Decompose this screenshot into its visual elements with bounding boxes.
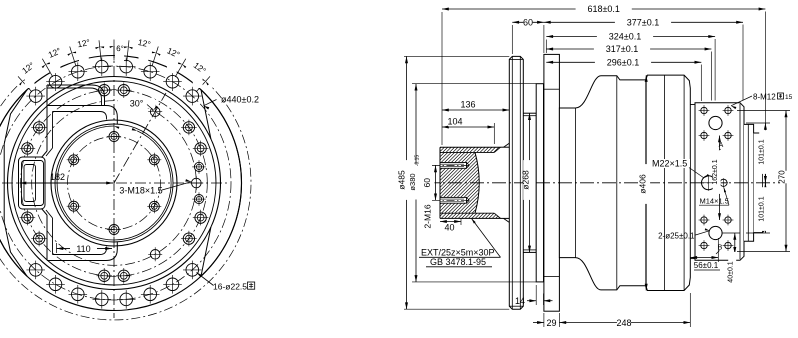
hole D22.5 at 240deg bbox=[46, 275, 65, 294]
hole D22.5 at 120deg bbox=[46, 72, 65, 91]
dim 296 bbox=[546, 57, 701, 67]
hole D22.5 at 132deg bbox=[26, 87, 45, 106]
port M14x1.5 bbox=[719, 178, 728, 187]
extension lines top dims bbox=[442, 12, 765, 146]
hole D22.5 at 108deg bbox=[69, 62, 88, 81]
dim 104 bbox=[442, 117, 494, 145]
dim 182 bbox=[20, 172, 114, 185]
hole D22.5 at 288deg bbox=[141, 285, 160, 304]
svg-text:M22×1.5: M22×1.5 bbox=[652, 159, 687, 169]
svg-text:324±0.1: 324±0.1 bbox=[609, 32, 641, 42]
svg-text:110: 110 bbox=[76, 244, 90, 254]
bolt circle mid bbox=[21, 90, 208, 277]
dim D485 bbox=[397, 56, 510, 309]
svg-text:2-ø25±0.1: 2-ø25±0.1 bbox=[658, 232, 695, 241]
stud hole at 216.6deg bbox=[31, 231, 47, 247]
dim 101 upper bbox=[746, 123, 770, 233]
stud hole at 276deg bbox=[116, 268, 132, 284]
svg-text:101±0.1: 101±0.1 bbox=[759, 196, 766, 221]
end cap bbox=[754, 133, 766, 233]
label D440 bbox=[204, 95, 259, 110]
dim 377 bbox=[544, 17, 743, 27]
port B D25 bbox=[709, 226, 722, 239]
label M22x1.5 bbox=[651, 159, 709, 179]
hole D22.5 at 228deg bbox=[26, 261, 45, 280]
housing ring bbox=[544, 54, 560, 311]
svg-text:162±0.1: 162±0.1 bbox=[712, 159, 719, 184]
label 3-M18x1.5 bbox=[119, 179, 191, 195]
stud hole at 158.2deg bbox=[20, 141, 36, 157]
svg-text:ø380: ø380 bbox=[408, 173, 417, 190]
side view centerline bbox=[426, 182, 780, 184]
inner hole at 90deg bbox=[107, 130, 121, 144]
svg-text:8-M12: 8-M12 bbox=[753, 93, 776, 102]
12deg labels bbox=[20, 28, 208, 88]
splined shaft outline bbox=[440, 143, 509, 222]
flange left flat profile bbox=[4, 90, 27, 276]
label 2-M16 bbox=[423, 204, 433, 228]
mounting bracket lug bbox=[19, 85, 118, 261]
bolt circle D440 bbox=[0, 66, 231, 300]
svg-text:40±0.1: 40±0.1 bbox=[728, 261, 735, 282]
stud hole at 21.8deg bbox=[193, 141, 209, 157]
dim 14 bbox=[515, 285, 553, 306]
flange chamfer right bbox=[201, 227, 211, 276]
label A bbox=[717, 142, 724, 154]
6deg label bbox=[115, 37, 124, 66]
hole D22.5 at 84deg bbox=[117, 57, 136, 76]
boss circle inner bbox=[55, 124, 173, 242]
hole D22.5 at 72deg bbox=[141, 62, 160, 81]
radial centerline 60deg bbox=[114, 93, 166, 183]
angular dim arc bbox=[0, 46, 251, 320]
label B bbox=[716, 245, 723, 255]
8 M12 bolt holes bbox=[699, 105, 734, 251]
svg-text:ø485: ø485 bbox=[397, 170, 407, 190]
dim 317 bbox=[546, 44, 711, 54]
svg-text:ø268: ø268 bbox=[521, 170, 531, 190]
end ring bbox=[744, 124, 754, 241]
dim 60 studs bbox=[422, 165, 437, 200]
body circle D406 bbox=[8, 77, 221, 290]
label 2-D25 bbox=[658, 228, 710, 240]
stud hole at 36.6deg bbox=[181, 120, 197, 136]
inner hole at 330deg bbox=[147, 199, 161, 213]
hole D22.5 at 276deg bbox=[117, 290, 136, 309]
hole D22.5 at 264deg bbox=[93, 290, 112, 309]
spigot D268 bbox=[523, 113, 536, 252]
spline section hatching bbox=[357, 145, 579, 221]
svg-text:296±0.1: 296±0.1 bbox=[607, 57, 639, 67]
boss circle outer bbox=[51, 120, 177, 246]
svg-text:EXT/25z×5m×30P: EXT/25z×5m×30P bbox=[421, 248, 495, 258]
angular extension lines bbox=[18, 40, 210, 93]
stud hole at 84deg bbox=[116, 82, 132, 98]
stud hole at 143.4deg bbox=[31, 120, 47, 136]
stud hole at -36.6deg bbox=[181, 231, 197, 247]
label spline spec bbox=[419, 219, 501, 268]
svg-text:270: 270 bbox=[778, 170, 787, 184]
svg-text:136: 136 bbox=[460, 100, 475, 110]
svg-text:40: 40 bbox=[444, 223, 454, 233]
bolt circle inner bbox=[68, 137, 161, 230]
bolt circle M18 bbox=[32, 101, 197, 266]
hole D22.5 at 96deg bbox=[93, 57, 112, 76]
dim 60 top bbox=[512, 17, 544, 27]
dim 162 bbox=[712, 136, 721, 221]
stud hole at 264deg bbox=[96, 268, 112, 284]
dim D406 bbox=[638, 75, 651, 290]
svg-text:6°: 6° bbox=[116, 44, 124, 53]
inner hole at 150deg bbox=[67, 153, 81, 167]
front view: horizontal centerline bbox=[2, 182, 228, 184]
dim D380 bbox=[408, 84, 536, 282]
svg-text:ø406: ø406 bbox=[638, 174, 648, 194]
hole M18 at 0deg bbox=[189, 176, 203, 190]
hole D22.5 at 312deg bbox=[183, 261, 202, 280]
svg-text:16-ø22.5: 16-ø22.5 bbox=[213, 282, 247, 292]
ring D380 bbox=[536, 84, 543, 282]
svg-text:104: 104 bbox=[447, 117, 462, 127]
dim 40 block bbox=[722, 233, 746, 292]
stud hole at -21.8deg bbox=[193, 210, 209, 226]
stud hole at 201.8deg bbox=[20, 210, 36, 226]
label M14x1.5 bbox=[699, 188, 729, 206]
svg-text:-0.15: -0.15 bbox=[415, 155, 421, 167]
dim 40 bbox=[440, 218, 461, 233]
dim 136 bbox=[442, 100, 509, 115]
dim 618 bbox=[442, 4, 765, 14]
svg-text:14: 14 bbox=[515, 296, 525, 306]
svg-text:30°: 30° bbox=[130, 99, 144, 109]
inner hole at 30deg bbox=[147, 153, 161, 167]
flange outer arc bottom bbox=[0, 55, 242, 276]
hole D22.5 at 300deg bbox=[163, 275, 182, 294]
svg-text:60: 60 bbox=[523, 17, 533, 27]
inner hole at 210deg bbox=[67, 199, 81, 213]
svg-text:3-M18×1.5: 3-M18×1.5 bbox=[119, 186, 162, 196]
svg-text:29: 29 bbox=[546, 318, 556, 328]
svg-text:2-M16: 2-M16 bbox=[423, 204, 433, 228]
dim 29 bbox=[533, 313, 559, 328]
body circle D380 bbox=[12, 81, 216, 285]
svg-text:M14×1.5: M14×1.5 bbox=[700, 197, 729, 206]
svg-text:101±0.1: 101±0.1 bbox=[759, 139, 766, 164]
svg-text:618±0.1: 618±0.1 bbox=[587, 4, 619, 14]
label 8-M12 bbox=[731, 93, 793, 110]
port A D25 bbox=[709, 116, 722, 129]
hole M18 at 60deg bbox=[148, 105, 162, 119]
svg-text:56±0.1: 56±0.1 bbox=[694, 261, 719, 270]
svg-text:377±0.1: 377±0.1 bbox=[627, 17, 659, 27]
stud hole at 96deg bbox=[96, 82, 112, 98]
dim 30deg bbox=[57, 99, 171, 240]
svg-text:GB 3478.1-95: GB 3478.1-95 bbox=[430, 257, 486, 267]
svg-text:248: 248 bbox=[616, 318, 631, 328]
svg-text:ø440±0.2: ø440±0.2 bbox=[221, 95, 259, 105]
inner hole at 270deg bbox=[107, 223, 121, 237]
small hole at -10.7deg bbox=[192, 192, 206, 206]
dim 270 bbox=[737, 111, 790, 252]
svg-text:60: 60 bbox=[422, 178, 432, 188]
dim 324 bbox=[546, 32, 715, 42]
svg-text:15: 15 bbox=[785, 94, 793, 101]
front view: vertical centerline bbox=[113, 47, 115, 318]
valve block bbox=[690, 103, 744, 260]
shaft through plate bbox=[509, 146, 523, 148]
flange plate D485 bbox=[509, 56, 523, 309]
flange outer arc top bbox=[0, 90, 241, 311]
dim 56 bbox=[690, 238, 720, 270]
hole D22.5 at 252deg bbox=[69, 285, 88, 304]
hole D22.5 at 60deg bbox=[163, 72, 182, 91]
hole D22.5 at 48deg bbox=[183, 87, 202, 106]
hole M18 at -60deg bbox=[148, 247, 162, 261]
dim 110 bbox=[57, 243, 113, 254]
flange chamfer right bbox=[201, 90, 211, 139]
motor body bbox=[559, 75, 690, 290]
port M22x1.5 bbox=[701, 175, 717, 191]
dim D268 bbox=[521, 113, 534, 252]
svg-text:317±0.1: 317±0.1 bbox=[606, 44, 638, 54]
2-M16 tapped holes bbox=[432, 163, 470, 204]
dim 248 bbox=[559, 293, 690, 328]
small hole at 10.7deg bbox=[192, 160, 206, 174]
label 16-D22.5 bbox=[197, 273, 255, 292]
